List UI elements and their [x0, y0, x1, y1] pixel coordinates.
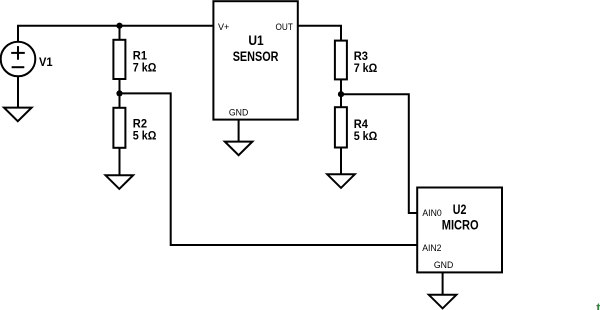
- op-amp / IC U1 box: [213, 1, 297, 119]
- resistor R4: [335, 107, 347, 147]
- svg-text:GND: GND: [434, 260, 453, 271]
- microcontroller U2 box: [417, 188, 502, 273]
- wire: U1 GND pin to ground: [238, 120, 240, 143]
- svg-text:7 kΩ: 7 kΩ: [354, 61, 378, 75]
- voltage source V1: [1, 42, 36, 77]
- svg-text:5 kΩ: 5 kΩ: [133, 129, 157, 143]
- svg-text:V+: V+: [218, 22, 230, 33]
- junction: node A (R1/R2 divider): [116, 90, 122, 96]
- wire: R1 bottom to node A: [119, 79, 121, 93]
- ground (below R4): [327, 174, 355, 188]
- svg-text:U2: U2: [453, 202, 467, 217]
- resistor R1: [113, 40, 125, 79]
- wire: R2 bottom to ground: [119, 148, 121, 176]
- wire: node A to R2 top: [119, 93, 121, 108]
- resistor R3: [335, 41, 347, 80]
- svg-text:U1: U1: [248, 33, 264, 48]
- ground (below U1): [225, 142, 253, 156]
- ground (below V1): [4, 108, 32, 122]
- wire: U2 GND pin to ground: [442, 272, 444, 295]
- junction: top rail / R1 node: [116, 23, 122, 29]
- wire: top rail from V1 to U1 V+ pin: [17, 25, 213, 27]
- resistor R2: [113, 108, 125, 148]
- svg-text:SENSOR: SENSOR: [233, 49, 279, 64]
- wire: U1 OUT pin to R3 top: [298, 26, 341, 42]
- svg-text:t: t: [596, 300, 600, 310]
- svg-text:AIN2: AIN2: [422, 243, 441, 254]
- svg-text:V1: V1: [39, 55, 53, 69]
- wire: junction to R1 top: [119, 26, 121, 41]
- svg-text:AIN0: AIN0: [422, 208, 441, 219]
- svg-text:7 kΩ: 7 kΩ: [133, 60, 157, 74]
- wire: V1 top stub: [17, 26, 19, 42]
- wire: V1 to ground: [17, 76, 19, 108]
- ground (below U2): [429, 295, 457, 309]
- svg-text:MICRO: MICRO: [442, 217, 479, 232]
- svg-text:GND: GND: [229, 107, 248, 118]
- wire: R4 bottom to ground: [340, 148, 342, 175]
- wire: node B to U2 AIN0: [341, 94, 417, 213]
- svg-text:OUT: OUT: [276, 22, 294, 33]
- junction: node B (R3/R4 divider): [338, 91, 344, 97]
- ground (below R2): [106, 175, 134, 189]
- wire: node B to R4 top: [340, 94, 342, 108]
- svg-text:5 kΩ: 5 kΩ: [354, 129, 378, 143]
- wire: R3 bottom to node B: [340, 79, 342, 94]
- wire: node A to U2 AIN2: [120, 93, 418, 245]
